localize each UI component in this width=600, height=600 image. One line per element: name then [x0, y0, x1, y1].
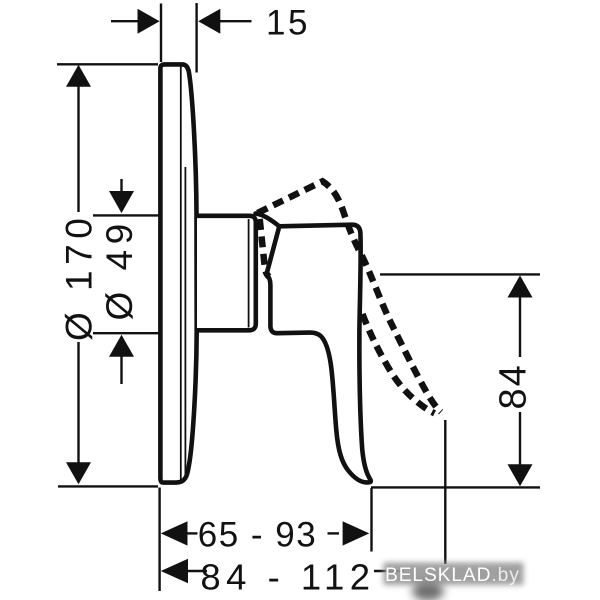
svg-text:65 - 93: 65 - 93 — [198, 516, 317, 555]
svg-text:Ø 170: Ø 170 — [59, 213, 100, 341]
svg-text:84: 84 — [493, 363, 535, 409]
svg-text:BELSKLAD.by: BELSKLAD.by — [385, 565, 520, 586]
svg-text:Ø 49: Ø 49 — [99, 218, 140, 320]
svg-text:15: 15 — [266, 4, 310, 43]
svg-text:84 - 112: 84 - 112 — [200, 557, 375, 598]
